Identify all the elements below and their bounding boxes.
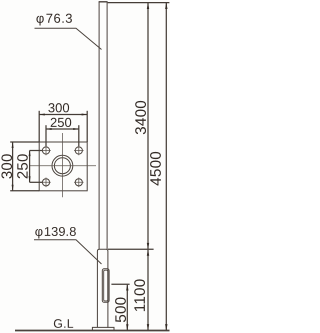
arrow 3400 bottom <box>147 243 149 249</box>
hand hole outer <box>102 269 109 303</box>
arrow 1100 bottom <box>147 324 149 330</box>
svg-text:300: 300 <box>0 153 16 179</box>
ext 300 top right <box>86 111 88 142</box>
svg-text:1100: 1100 <box>132 279 149 313</box>
bolt hole TR <box>75 147 82 154</box>
dim line 3400 <box>147 3 149 249</box>
ext 250 left top <box>30 150 43 152</box>
pole top cap <box>99 1 108 3</box>
dim line 300 left <box>12 142 14 191</box>
bolt tick TL <box>41 146 51 156</box>
dim line 1100 <box>147 250 149 330</box>
center circle outer <box>52 155 73 176</box>
plate dims <box>10 111 87 191</box>
ext 250 top right <box>78 125 80 146</box>
bolt tick BL <box>41 178 51 188</box>
arrow 250 top R <box>73 128 79 130</box>
center circle inner <box>54 158 70 174</box>
svg-text:φ139.8: φ139.8 <box>35 224 77 239</box>
svg-text:250: 250 <box>15 153 32 179</box>
svg-text:3400: 3400 <box>133 100 150 135</box>
arrow 250 top L <box>46 128 52 130</box>
arrow 500 bottom <box>126 324 128 330</box>
dim line 4500 <box>165 3 167 330</box>
bolt hole TL <box>42 147 49 154</box>
dim line 250 top <box>46 128 79 130</box>
arrow 500 top <box>126 284 128 290</box>
ext line top (pole top) <box>108 2 170 4</box>
hand hole inner <box>104 270 108 301</box>
bolt tick BR <box>74 178 84 188</box>
arrow 300 left B <box>12 185 14 191</box>
arrow 300 top L <box>39 114 45 116</box>
svg-text:4500: 4500 <box>148 151 165 186</box>
leader phi139.8 <box>34 240 102 264</box>
arrow 1100 top <box>147 249 149 255</box>
leader phi76.3 <box>35 28 102 49</box>
ext 300 left top <box>10 141 39 143</box>
pole upper tube (phi76.3) wire left <box>98 2 100 249</box>
arrow 4500 top <box>165 3 167 9</box>
ext 300 top left <box>38 111 40 142</box>
centerline horizontal <box>30 165 96 167</box>
ext 250 top left <box>45 125 47 146</box>
plate outline <box>39 142 87 191</box>
dim line 500 <box>126 285 128 330</box>
arrow 250 left B <box>29 176 31 182</box>
base plate side view <box>92 327 114 330</box>
svg-text:φ76.3: φ76.3 <box>36 11 73 26</box>
svg-text:500: 500 <box>113 297 130 323</box>
bolt hole BL <box>42 179 49 186</box>
centerline vertical <box>61 133 63 197</box>
bolt hole BR <box>75 179 82 186</box>
arrow 300 left T <box>12 142 14 148</box>
svg-text:G.L: G.L <box>53 317 74 331</box>
ext line handhole center (500) <box>111 283 129 285</box>
dim line 300 top <box>39 114 87 116</box>
ext line joint <box>108 248 154 250</box>
arrow 300 top R <box>82 114 88 116</box>
pole lower tube (phi139.8) outline <box>97 249 108 327</box>
ext 250 left bottom <box>30 181 43 183</box>
dim line 250 left <box>29 151 31 183</box>
arrow 250 left T <box>29 151 31 157</box>
svg-text:250: 250 <box>50 115 72 130</box>
arrow 4500 bottom <box>165 324 167 330</box>
svg-text:300: 300 <box>48 100 70 115</box>
arrow 3400 top <box>147 3 149 9</box>
ground line G.L <box>15 330 170 332</box>
bolt tick TR <box>74 146 84 156</box>
ext 300 left bottom <box>10 190 39 192</box>
pole upper tube wire right <box>106 2 108 249</box>
